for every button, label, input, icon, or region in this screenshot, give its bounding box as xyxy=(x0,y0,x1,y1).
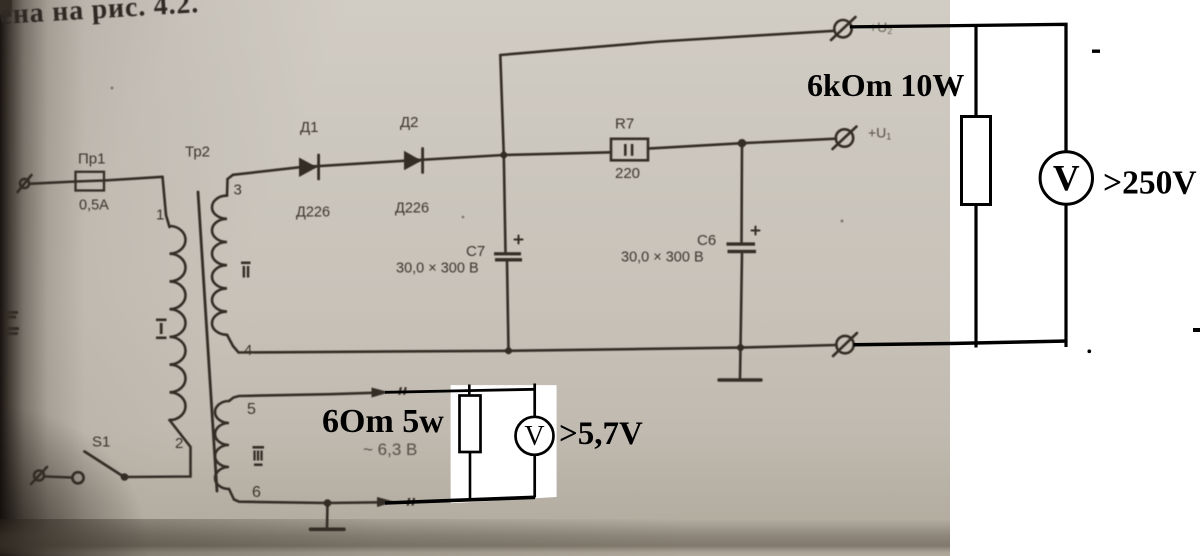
terminal +U1 xyxy=(836,129,853,146)
winding II xyxy=(212,196,227,335)
svg-text:0,5А: 0,5А xyxy=(79,198,109,214)
svg-text:Тр2: Тр2 xyxy=(185,144,210,161)
svg-text:>5,7V: >5,7V xyxy=(559,416,643,452)
wire pin5 annotated xyxy=(385,389,535,392)
svg-text:C6: C6 xyxy=(697,232,716,249)
svg-text:Д1: Д1 xyxy=(300,119,319,136)
switch S1 arm xyxy=(85,452,124,477)
svg-text:S1: S1 xyxy=(92,434,110,451)
C7 plus xyxy=(515,236,523,244)
load resistor 6k stem top xyxy=(974,25,977,118)
scanned filled shapes xyxy=(0,0,844,507)
svg-text:Д226: Д226 xyxy=(395,201,429,217)
winding I roman numeral xyxy=(156,319,167,322)
node R7-C6 junction xyxy=(738,139,746,147)
pin6 arrow xyxy=(377,497,395,507)
svg-text:4: 4 xyxy=(244,342,252,359)
node switch pivot xyxy=(121,473,129,481)
svg-text:6Om 5w: 6Om 5w xyxy=(322,403,444,440)
terminal input xyxy=(20,179,29,188)
pin4 lead + bottom rail xyxy=(227,335,837,353)
stray dash right edge xyxy=(1193,328,1200,332)
load resistor 6Om stem bottom xyxy=(469,452,472,499)
switch open contact xyxy=(72,472,83,483)
margin marks left edge xyxy=(5,311,18,314)
svg-text:3: 3 xyxy=(234,182,242,199)
load resistor 6k stem bottom xyxy=(974,203,977,348)
wire pin1 lead xyxy=(163,177,170,227)
node C7 bottom xyxy=(505,347,512,354)
wire pin6 annotated xyxy=(385,497,535,503)
voltmeter small stem bottom xyxy=(533,455,536,498)
voltmeter small body xyxy=(516,417,554,455)
top rail to +U2 xyxy=(500,31,834,55)
pin6 cut ticks xyxy=(407,498,411,506)
svg-text:>250V: >250V xyxy=(1103,165,1197,202)
voltmeter small stem top xyxy=(533,384,536,418)
terminal bottom-left xyxy=(34,471,44,481)
svg-text:R7: R7 xyxy=(615,116,634,133)
diode line left part xyxy=(233,152,611,175)
fuse Pr1 xyxy=(76,172,105,191)
wire switch to terminal xyxy=(46,477,72,478)
svg-text:ена на рис. 4.2.: ена на рис. 4.2. xyxy=(0,0,200,31)
wire input to fuse to transformer xyxy=(29,177,163,184)
C6 bottom plate xyxy=(728,250,757,253)
svg-text:6kOm 10W: 6kOm 10W xyxy=(807,67,964,103)
wire pin2 lead xyxy=(125,420,191,477)
node pin6 ground tap xyxy=(324,499,332,507)
svg-text:V: V xyxy=(1053,159,1080,200)
R7 marking bars xyxy=(624,144,627,156)
C6 top plate xyxy=(727,242,756,245)
winding III roman numeral xyxy=(253,446,265,449)
ground under C6 xyxy=(739,348,742,378)
svg-text:30,0 × 300 В: 30,0 × 300 В xyxy=(396,261,479,277)
C7 bottom lead xyxy=(507,261,509,351)
node diode junction xyxy=(500,152,507,159)
pin5 cut ticks xyxy=(398,387,402,395)
svg-text:220: 220 xyxy=(615,165,640,182)
load resistor 6Om stem top xyxy=(468,385,471,397)
vertical to top rail xyxy=(500,55,504,155)
voltmeter big stem bottom xyxy=(1064,204,1067,347)
C7 bottom plate xyxy=(495,258,522,261)
C6 plus xyxy=(752,227,760,235)
wire +U2 to load top xyxy=(850,24,1066,152)
svg-text:Д2: Д2 xyxy=(400,114,419,131)
speck xyxy=(462,216,465,219)
winding I primary xyxy=(170,226,186,420)
wire bottom terminal to load xyxy=(854,341,1068,345)
pin6 lead + wire xyxy=(229,489,381,503)
svg-text:6: 6 xyxy=(252,484,261,501)
svg-text:V: V xyxy=(524,421,544,452)
voltmeter big body xyxy=(1040,152,1092,204)
ground under pin6 xyxy=(326,503,329,528)
node C6 bottom xyxy=(737,344,744,351)
diode D1 cathode bar xyxy=(317,155,320,179)
svg-text:1: 1 xyxy=(156,207,164,224)
pin3 lead xyxy=(227,175,233,196)
C7 top plate xyxy=(494,252,521,255)
svg-text:Пр1: Пр1 xyxy=(78,151,105,168)
svg-text:Д226: Д226 xyxy=(296,205,330,221)
svg-text:+U1: +U1 xyxy=(868,125,891,142)
diode line right part xyxy=(648,139,836,149)
svg-text:C7: C7 xyxy=(466,243,485,260)
diode D2 triangle xyxy=(404,151,422,171)
C6 bottom lead xyxy=(741,253,743,347)
pin5 lead + wire xyxy=(229,393,373,401)
C6 top lead xyxy=(740,143,743,242)
R7 body xyxy=(611,139,648,161)
load resistor 6k body xyxy=(962,117,991,205)
corner blob top-left xyxy=(0,0,12,15)
load resistor 6Om body xyxy=(460,396,481,453)
diode D2 cathode bar xyxy=(421,149,424,173)
stray dot bottom right xyxy=(1088,350,1092,354)
svg-text:5: 5 xyxy=(247,401,256,418)
winding II roman numeral xyxy=(241,262,251,265)
svg-text:~ 6,3 В: ~ 6,3 В xyxy=(363,440,417,459)
C7 top lead xyxy=(504,155,506,252)
transformer core xyxy=(198,192,217,491)
winding III xyxy=(215,401,229,489)
svg-text:30,0 × 300 В: 30,0 × 300 В xyxy=(621,250,704,266)
terminal bottom right xyxy=(836,336,853,353)
diode D1 triangle xyxy=(299,158,317,178)
svg-text:2: 2 xyxy=(175,435,183,452)
stray dash top right xyxy=(1092,50,1100,53)
terminal +U2 xyxy=(834,20,851,37)
white box xyxy=(451,385,557,503)
pin5 arrow xyxy=(372,388,390,398)
